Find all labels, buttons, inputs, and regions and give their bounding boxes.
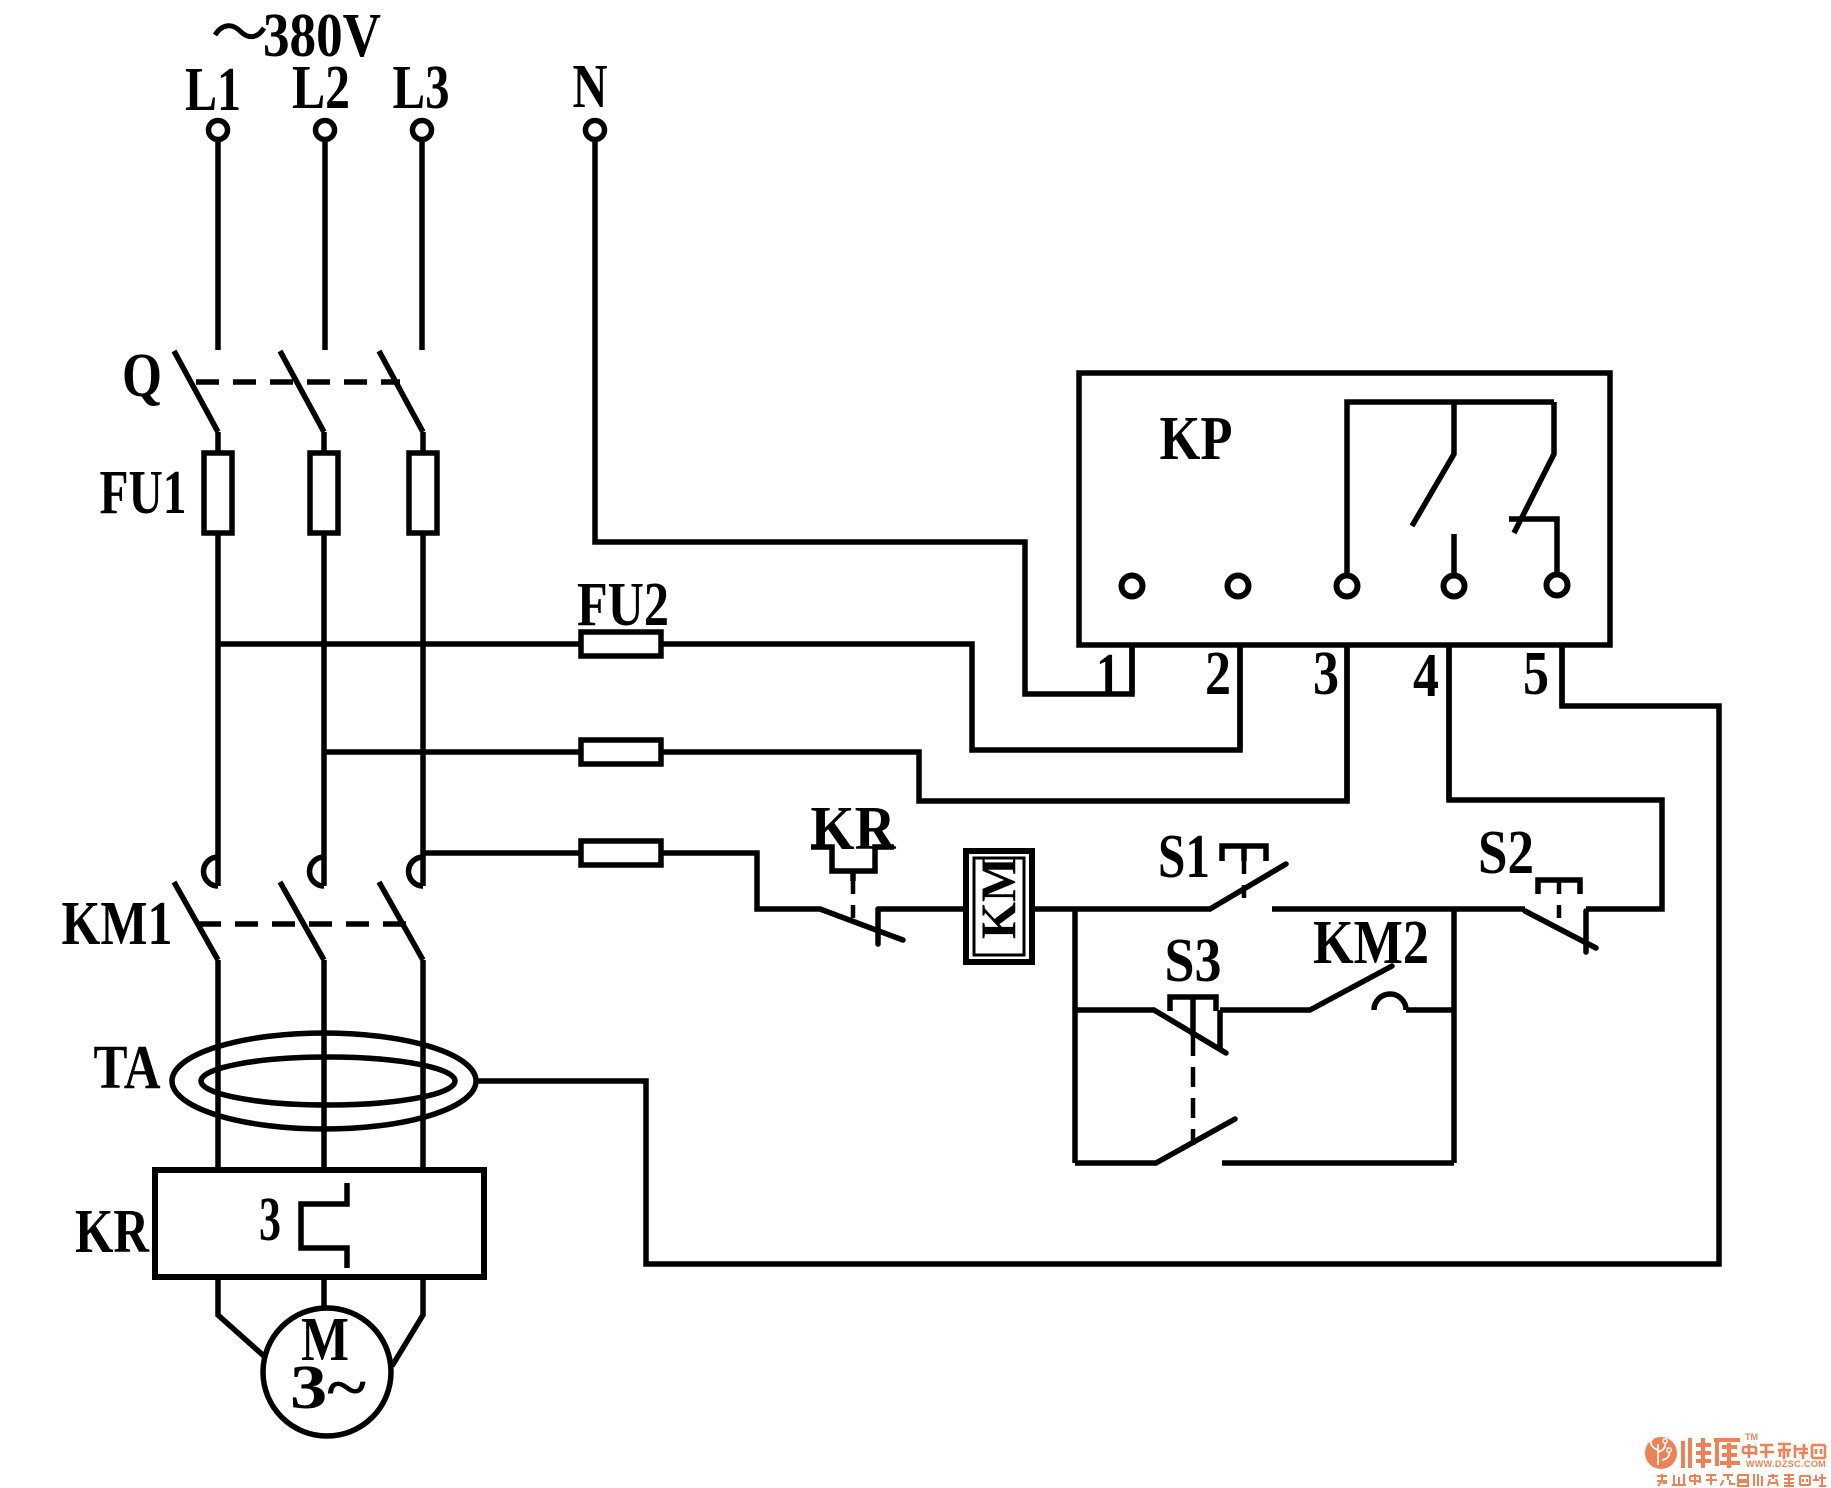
svg-text:5: 5 [1523,640,1549,708]
svg-text:3: 3 [259,1186,281,1254]
svg-text:S1: S1 [1158,823,1210,891]
svg-text:4: 4 [1413,642,1439,710]
svg-text:WWW.DZSC.COM: WWW.DZSC.COM [1746,1459,1826,1469]
svg-text:N: N [573,53,608,121]
svg-text:TM: TM [1745,1432,1758,1442]
svg-text:L1: L1 [185,56,241,124]
svg-text:KM1: KM1 [62,890,173,958]
svg-text:KP: KP [1160,405,1233,473]
svg-text:Q: Q [122,342,162,410]
svg-text:KR: KR [75,1198,150,1266]
svg-text:L3: L3 [393,54,450,122]
svg-text:2: 2 [1205,640,1231,708]
svg-text:KM: KM [970,857,1026,939]
svg-text:1: 1 [1096,642,1120,710]
svg-text:FU2: FU2 [577,571,669,639]
svg-text:TA: TA [94,1034,161,1102]
svg-text:KM2: KM2 [1313,909,1429,977]
svg-text:S2: S2 [1478,819,1534,887]
svg-text:KR: KR [811,795,897,863]
svg-text:3: 3 [1313,640,1339,708]
svg-text:FU1: FU1 [100,459,187,527]
svg-text:S3: S3 [1165,927,1222,995]
svg-text:3~: 3~ [290,1354,366,1422]
svg-text:L2: L2 [292,54,350,122]
